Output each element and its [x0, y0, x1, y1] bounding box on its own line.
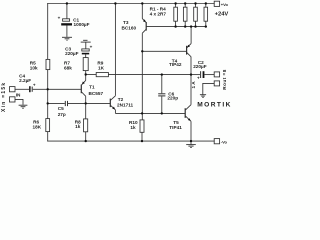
svg-text:1 A: 1 A [191, 81, 196, 89]
ground under C1 [62, 37, 72, 40]
capacitor C5 [48, 101, 86, 117]
wire T1 collector to T2 base [86, 102, 111, 104]
svg-text:T3: T3 [123, 20, 129, 25]
svg-text:2N1711: 2N1711 [117, 102, 134, 107]
resistor R8 [75, 103, 88, 141]
resistor R2 [183, 7, 187, 21]
ground output [200, 95, 206, 98]
ground input [19, 105, 28, 108]
svg-text:1k: 1k [75, 124, 81, 129]
wire top rail +24V [48, 3, 215, 5]
svg-text:Xin =15k: Xin =15k [1, 82, 7, 112]
resistor R1 [174, 7, 178, 21]
svg-text:MORTIK: MORTIK [197, 101, 232, 108]
transistor T1 BC557 [48, 75, 104, 104]
connector output pin 1 [214, 72, 219, 77]
svg-text:-Vo: -Vo [221, 139, 228, 144]
svg-text:T1: T1 [89, 84, 95, 89]
capacitor C4 [19, 74, 48, 93]
svg-text:+: + [197, 75, 200, 80]
svg-text:1000µF: 1000µF [74, 22, 90, 27]
svg-text:220p: 220p [167, 96, 178, 101]
svg-text:+: + [90, 44, 93, 49]
transistor T3 BC160 [122, 4, 206, 120]
svg-text:68k: 68k [64, 65, 72, 70]
svg-text:C5: C5 [58, 106, 64, 111]
svg-text:+: + [33, 82, 36, 87]
wires R1-R4 leads [176, 4, 206, 27]
transistor T5 TIP41 [169, 105, 191, 141]
connector +24V [214, 1, 228, 17]
wire left rail upper [47, 4, 49, 60]
connector input pin 2 [10, 97, 24, 105]
wire T2 emitter to T5 base [115, 112, 185, 114]
svg-text:Rout =8: Rout =8 [222, 69, 227, 89]
ground above C3 (inverted) [81, 40, 91, 49]
capacitor C3 [65, 44, 93, 57]
svg-text:TIP41: TIP41 [169, 125, 182, 130]
svg-text:TIP42: TIP42 [169, 62, 182, 67]
wire left rail lower [47, 132, 49, 142]
capacitor C1 [58, 4, 90, 37]
svg-text:BC160: BC160 [122, 26, 137, 31]
resistor R10 [129, 120, 144, 141]
capacitor C6 [158, 75, 178, 114]
resistor R9 [86, 61, 191, 77]
connector input pin 1 [10, 87, 30, 92]
resistor R7 [64, 58, 88, 75]
ground under T5 emitter [186, 141, 196, 147]
svg-text:2.2µF: 2.2µF [19, 78, 31, 83]
resistor R3 [194, 7, 198, 21]
svg-text:220µF: 220µF [193, 64, 207, 69]
svg-text:220µF: 220µF [65, 51, 79, 56]
connector output pin 2 [203, 81, 220, 95]
svg-text:+: + [58, 15, 61, 20]
wire left rail middle [47, 70, 49, 119]
wire bottom rail [48, 140, 215, 142]
svg-text:+24V: +24V [215, 11, 229, 17]
resistor R5 [30, 59, 50, 70]
transistor T2 2N1711 [110, 4, 133, 114]
svg-text:10k: 10k [30, 65, 38, 70]
transistor T4 TIP42 [142, 27, 191, 105]
svg-text:BC557: BC557 [89, 91, 104, 96]
svg-text:T2: T2 [118, 97, 124, 102]
connector -Ve [214, 139, 227, 145]
capacitor C2 [191, 60, 214, 80]
svg-text:1k: 1k [130, 125, 136, 130]
resistor R6 [33, 119, 50, 132]
resistor R4 [204, 7, 208, 21]
svg-text:IN: IN [16, 93, 21, 98]
svg-text:1K: 1K [98, 65, 105, 70]
svg-text:+Vo: +Vo [221, 2, 229, 7]
svg-text:4 x 2R7: 4 x 2R7 [150, 11, 167, 16]
svg-text:27p: 27p [58, 112, 66, 117]
svg-text:18K: 18K [33, 124, 42, 129]
